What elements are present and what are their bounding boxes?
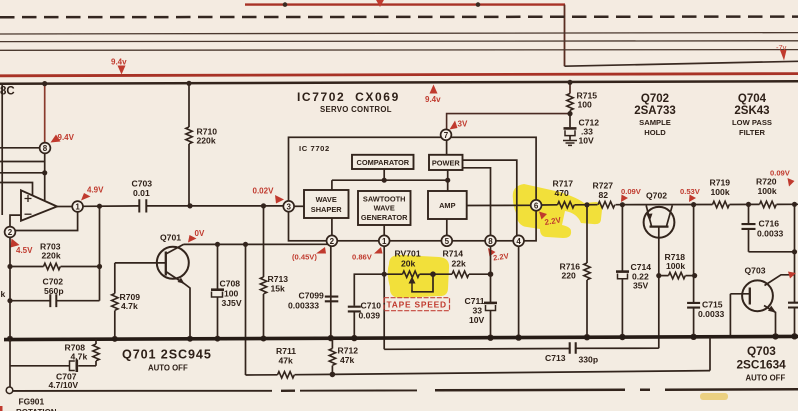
red 9.4V bus xyxy=(0,74,798,76)
svg-text:0.039: 0.039 xyxy=(359,311,381,321)
resistor R719 xyxy=(713,201,730,207)
node at (794.5,251.8) xyxy=(792,249,797,254)
thin bus line 3 xyxy=(0,49,798,52)
svg-text:C710: C710 xyxy=(361,301,382,311)
svg-text:10V: 10V xyxy=(469,315,485,325)
svg-text:2SK43: 2SK43 xyxy=(734,105,769,117)
wire pin 3 to WAVE SHAPER xyxy=(294,205,304,207)
wire inverting input from pin 2 xyxy=(10,215,21,227)
svg-text:IC7702 CX069: IC7702 CX069 xyxy=(297,90,400,104)
svg-text:220k: 220k xyxy=(197,136,216,146)
transistor Q703 xyxy=(742,280,773,311)
capacitor C713 on sub line xyxy=(384,348,569,351)
svg-text:0.53V: 0.53V xyxy=(680,187,701,196)
svg-text:22k: 22k xyxy=(452,259,467,269)
top power rail (red) xyxy=(245,3,565,5)
resistor R716 vertical xyxy=(586,205,588,263)
wire feedback pin1 to pin2 xyxy=(16,212,78,231)
capacitor C711 electrolytic xyxy=(484,302,497,305)
svg-text:Q703: Q703 xyxy=(747,344,776,358)
wire column x245.5 down through bus xyxy=(245,244,247,375)
dark 9.4V bus xyxy=(0,81,798,84)
node at (570,113.6) xyxy=(567,111,572,116)
svg-text:35V: 35V xyxy=(633,281,649,291)
wire stub y172 xyxy=(0,172,45,174)
wire left edge vertical xyxy=(1,85,3,216)
svg-text:R713: R713 xyxy=(268,274,289,284)
pin 5 of IC7702 xyxy=(441,235,452,246)
node C708 on ground bus xyxy=(215,336,221,342)
svg-text:100k: 100k xyxy=(711,187,730,197)
node at (44.7,172.8) xyxy=(42,170,47,175)
svg-text:AUTO OFF: AUTO OFF xyxy=(746,374,786,383)
wire pin2 column down xyxy=(9,238,11,339)
svg-text:100k: 100k xyxy=(666,261,685,271)
node right edge on ground bus xyxy=(791,333,797,339)
node at (587,204.8) xyxy=(584,202,589,207)
op-amp minus sign xyxy=(25,213,32,215)
svg-text:100k: 100k xyxy=(758,186,777,196)
block COMPARATOR xyxy=(352,155,414,169)
block AMP xyxy=(428,191,467,219)
svg-text:3: 3 xyxy=(286,202,291,211)
svg-text:SERVO CONTROL: SERVO CONTROL xyxy=(320,105,392,114)
svg-text:0.86V: 0.86V xyxy=(352,253,373,262)
svg-text:FILTER: FILTER xyxy=(739,128,766,137)
wire vertical -7V feed xyxy=(564,5,566,67)
arrow 9.4V to pin 8 xyxy=(51,135,61,143)
node at (332.4,374.4) xyxy=(330,372,336,378)
resistor R711 horizontal on lower line xyxy=(246,374,278,376)
block WAVE SHAPER xyxy=(304,190,349,218)
svg-text:0.0033: 0.0033 xyxy=(757,229,784,239)
arrow to pin 1 xyxy=(374,247,383,254)
arrow 9.4V mid (pointing up) xyxy=(430,85,438,94)
resistor R713 vertical xyxy=(263,206,265,277)
wire pin 1 column down through bus xyxy=(383,246,385,349)
highlighter mark over pin 6 area xyxy=(513,184,602,238)
wire pin8 feed from bus (red) xyxy=(44,84,46,143)
node at (245.5,244.3) xyxy=(243,242,248,247)
node at (658.8,275.6) xyxy=(656,273,661,278)
wire R717 to R727 xyxy=(575,204,598,206)
thin bus line 1 xyxy=(0,33,798,34)
node R715 on dark bus xyxy=(567,80,572,85)
svg-text:100: 100 xyxy=(578,100,593,110)
svg-text:GENERATOR: GENERATOR xyxy=(361,213,408,222)
arrow 4.9V to pin 1 xyxy=(81,193,91,201)
red tick bottom left xyxy=(0,406,3,411)
node at (99.5,266.5) xyxy=(97,264,102,269)
resistor R717 xyxy=(558,202,575,208)
svg-text:FG901: FG901 xyxy=(19,397,45,407)
arrow 0V xyxy=(188,235,197,243)
capacitor at right edge (partial) xyxy=(788,303,798,308)
node R716 on ground bus xyxy=(584,334,590,340)
transistor Q701 xyxy=(157,247,189,279)
wire bend up at x710 xyxy=(709,337,711,370)
-7V line xyxy=(565,61,798,66)
highlighter smudge bottom right xyxy=(700,393,728,400)
wire WAVE SHAPER top xyxy=(331,180,333,190)
svg-text:8: 8 xyxy=(43,144,48,153)
arrow -7V xyxy=(780,50,787,61)
svg-text:33: 33 xyxy=(473,306,483,316)
wire pin 8 column down xyxy=(490,246,492,302)
svg-text:470: 470 xyxy=(555,188,570,198)
svg-text:4.7/10V: 4.7/10V xyxy=(49,380,79,390)
svg-text:9.4v: 9.4v xyxy=(425,95,441,104)
svg-text:20k: 20k xyxy=(401,259,416,269)
svg-text:R714: R714 xyxy=(443,249,464,259)
svg-text:2: 2 xyxy=(8,228,13,237)
svg-text:R712: R712 xyxy=(338,346,359,356)
wire RV701 left arm and C710 arm xyxy=(354,274,384,306)
resistor R710 vertical with wires xyxy=(188,83,190,127)
wire Q701 emitter with arrow xyxy=(166,272,190,339)
svg-text:k: k xyxy=(1,289,6,299)
connector circle FG901 xyxy=(6,387,13,394)
ground bus (thick) xyxy=(4,336,798,339)
wire Q702 base column below bus to C713 line xyxy=(658,276,660,349)
svg-text:82: 82 xyxy=(599,190,609,200)
node at (693.6,204.6) xyxy=(691,202,696,207)
node C714 on ground bus xyxy=(619,334,625,340)
wire Q703 base column to ground bus xyxy=(729,294,731,337)
svg-text:0.09V: 0.09V xyxy=(770,169,791,178)
capacitor C712 electrolytic xyxy=(569,114,571,128)
wire R711 branch vertical xyxy=(245,374,247,376)
wire pin8 down to op-amp xyxy=(44,154,46,202)
node at (217.5,244.3) xyxy=(215,242,220,247)
node C710 on ground bus xyxy=(351,335,357,341)
svg-text:LOW PASS: LOW PASS xyxy=(732,118,772,127)
svg-text:C703: C703 xyxy=(132,179,153,189)
svg-text:9.4v: 9.4v xyxy=(111,58,127,67)
wire wiper loop xyxy=(412,274,433,292)
pin 8 of op-amp xyxy=(40,143,51,154)
svg-text:C7099: C7099 xyxy=(299,291,325,301)
svg-text:0.0033: 0.0033 xyxy=(698,309,725,319)
wire Q702 base down xyxy=(658,227,660,276)
pin 6 of IC7702 xyxy=(531,200,542,211)
wire WAVE SHAPER to pin 2 xyxy=(331,218,333,235)
wire stub y182 with bend to op-amp xyxy=(0,183,33,197)
wire pin 6 to R717 xyxy=(542,204,558,206)
node at (694.6,275.6) xyxy=(692,273,697,278)
svg-text:Q704: Q704 xyxy=(738,93,767,105)
svg-text:IC 7702: IC 7702 xyxy=(299,144,330,153)
wire stub to pin 8 xyxy=(0,147,40,149)
svg-text:C714: C714 xyxy=(631,262,652,272)
bottom boundary line segments xyxy=(13,390,272,392)
arrow 2.2V to pin 6 xyxy=(539,212,547,220)
wire R720 to right edge xyxy=(777,203,798,205)
svg-text:(0.45V): (0.45V) xyxy=(292,253,317,262)
node at (10,266.5) xyxy=(7,264,12,269)
svg-text:4: 4 xyxy=(516,237,521,246)
svg-text:15k: 15k xyxy=(271,284,286,294)
svg-text:0.00333: 0.00333 xyxy=(288,301,319,311)
svg-text:4.9V: 4.9V xyxy=(87,186,104,195)
svg-text:POWER: POWER xyxy=(432,159,461,168)
svg-text:2SC1634: 2SC1634 xyxy=(737,358,787,372)
arrow 0.09V xyxy=(621,195,628,203)
capacitor C716 xyxy=(748,204,750,223)
arrow 9.4V top xyxy=(118,66,126,75)
svg-text:330p: 330p xyxy=(579,355,599,365)
arrow 0.02V to pin 3 xyxy=(275,195,284,204)
stamp TAPE SPEED xyxy=(384,298,450,311)
resistor R720 xyxy=(760,201,777,207)
svg-text:C708: C708 xyxy=(220,279,241,289)
svg-text:10V: 10V xyxy=(579,136,595,146)
pin 3 of IC7702 xyxy=(283,201,294,212)
wire Q701 collector to IC pin 2 xyxy=(184,243,331,245)
svg-text:C716: C716 xyxy=(759,219,780,229)
wire pin 2 column down xyxy=(330,246,332,338)
svg-text:C711: C711 xyxy=(465,296,485,306)
svg-text:WAVE: WAVE xyxy=(374,204,395,213)
svg-text:SAWTOOTH: SAWTOOTH xyxy=(363,195,406,204)
Q703 emitter diagonal with arrow xyxy=(764,306,776,337)
red mark at Q703 collector xyxy=(788,272,796,279)
svg-text:4.7k: 4.7k xyxy=(121,301,138,311)
svg-text:Q702: Q702 xyxy=(646,191,667,201)
svg-text:Q701 2SC945: Q701 2SC945 xyxy=(122,348,212,362)
node at (99.5,206.2) xyxy=(97,204,102,209)
resistor R727 xyxy=(598,202,615,208)
thin bus line 2 xyxy=(0,40,798,43)
svg-text:5: 5 xyxy=(445,237,450,246)
wire AMP to pin 6 xyxy=(467,204,531,206)
svg-text:AMP: AMP xyxy=(439,201,455,210)
wire internal junction bus xyxy=(332,179,448,181)
op-amp U701 triangle xyxy=(21,190,57,220)
svg-text:4.7k: 4.7k xyxy=(71,352,88,362)
capacitor C708 electrolytic xyxy=(217,244,219,288)
node at (10,300.7) xyxy=(7,298,12,303)
capacitor C707 electrolytic horizontal xyxy=(78,365,96,367)
svg-text:9.4V: 9.4V xyxy=(58,133,75,142)
svg-text:WAVE: WAVE xyxy=(316,195,337,204)
node at (384.2,274.2) xyxy=(382,272,387,277)
arrow to pin 2 xyxy=(316,247,326,254)
svg-text:560p: 560p xyxy=(44,286,64,296)
block SAWTOOTH WAVE GENERATOR xyxy=(358,191,411,225)
svg-text:7: 7 xyxy=(444,131,449,140)
capacitor C7099 xyxy=(325,297,339,302)
wire SAWTOOTH to pin 1 xyxy=(383,225,385,235)
svg-text:Q702: Q702 xyxy=(641,93,669,105)
svg-text:COMPARATOR: COMPARATOR xyxy=(357,158,410,167)
node at (190,205.9) xyxy=(187,203,192,208)
pin 4 of IC7702 xyxy=(513,235,524,246)
node Q703 emitter on ground bus xyxy=(772,333,778,339)
wire C716 loop bottom xyxy=(749,251,795,253)
svg-text:RV701: RV701 xyxy=(395,249,421,259)
wire R727 to Q702 region xyxy=(616,204,713,206)
svg-text:220k: 220k xyxy=(42,251,61,261)
wire pin 4 column down xyxy=(518,246,520,337)
node at (263.5,205.9) xyxy=(261,203,266,208)
svg-text:47k: 47k xyxy=(340,355,355,365)
wire pin 7 to POWER xyxy=(446,140,448,155)
svg-text:0.02V: 0.02V xyxy=(253,187,275,196)
svg-text:AUTO OFF: AUTO OFF xyxy=(148,364,188,373)
wire lower auto-off line to right xyxy=(332,371,710,375)
Q703 collector diagonal and wire to right column xyxy=(765,275,795,286)
svg-text:TAPE SPEED: TAPE SPEED xyxy=(386,300,446,310)
wire feedback column x99.5 xyxy=(99,206,101,301)
resistor R703 horizontal xyxy=(10,266,44,268)
capacitor C702 xyxy=(10,300,100,302)
arrow 0.53V xyxy=(689,195,696,203)
wire op-amp output to pin 1 xyxy=(57,206,72,208)
node on dark bus at x189 xyxy=(186,81,191,86)
resistor R715 vertical with wires xyxy=(569,82,571,93)
wire C703 to pin 3 xyxy=(146,205,283,207)
arrow 3V to pin 7 xyxy=(450,121,458,130)
svg-text:3V: 3V xyxy=(458,120,468,129)
svg-text:6: 6 xyxy=(534,201,539,210)
svg-text:R717: R717 xyxy=(553,179,574,189)
node pin2 column on ground bus xyxy=(328,335,334,341)
svg-text:47k: 47k xyxy=(279,356,294,366)
capacitor C714 electrolytic xyxy=(621,205,623,271)
node pin4 on ground bus xyxy=(515,334,521,340)
svg-text:4.5V: 4.5V xyxy=(16,246,33,255)
node at (10,338.6) on ground bus xyxy=(7,336,13,342)
node C715 on ground bus xyxy=(690,334,696,340)
resistor R709 vertical xyxy=(114,263,116,294)
node on dark bus at x44.7 xyxy=(42,81,47,86)
svg-text:R719: R719 xyxy=(710,178,731,188)
node at (748.5,204.4) xyxy=(746,202,751,207)
node on top rail xyxy=(283,2,288,7)
RV701 wiper arrow xyxy=(411,282,413,291)
svg-text:Q701: Q701 xyxy=(160,233,181,243)
node R713 on ground bus xyxy=(261,336,267,342)
ground symbol below C712 xyxy=(563,141,577,146)
svg-text:220: 220 xyxy=(562,271,577,281)
arrow to pin 8 xyxy=(488,248,496,257)
capacitor C710 xyxy=(348,307,361,312)
node Q701 emitter on ground bus xyxy=(187,336,193,342)
wire stub y161 xyxy=(0,161,45,163)
wire R719 to R720 xyxy=(730,203,760,205)
svg-text:2SA733: 2SA733 xyxy=(634,105,676,117)
pin 2 of op-amp xyxy=(5,227,16,238)
node on top rail xyxy=(476,2,481,7)
Q702 emitter diagonal with arrow xyxy=(646,206,651,227)
wire Q703 base xyxy=(730,293,749,295)
op-amp plus sign xyxy=(25,195,32,202)
node R709 on ground bus xyxy=(112,336,118,342)
pin 8 of IC7702 xyxy=(485,235,496,246)
svg-text:8: 8 xyxy=(488,237,493,246)
voltage arrow on top rail xyxy=(376,0,385,7)
wire C715 column xyxy=(693,205,695,302)
svg-text:HOLD: HOLD xyxy=(644,128,666,137)
svg-text:100: 100 xyxy=(224,289,239,299)
node at (447.7,180.2) xyxy=(445,178,450,183)
potentiometer RV701 xyxy=(384,273,402,275)
svg-text:SAMPLE: SAMPLE xyxy=(639,118,671,127)
svg-text:1: 1 xyxy=(75,203,80,212)
node at (490.5,274.2) xyxy=(488,271,494,277)
svg-text:Q703: Q703 xyxy=(745,266,766,276)
node at (433,274.2) xyxy=(430,271,436,277)
svg-text:C715: C715 xyxy=(702,300,723,310)
svg-text:C702: C702 xyxy=(43,277,64,287)
pin 1 of op-amp xyxy=(72,201,83,212)
resistor R712 vertical xyxy=(331,339,333,349)
svg-text:3J5V: 3J5V xyxy=(222,298,242,308)
node at (622.4,204.7) xyxy=(620,202,625,207)
block POWER xyxy=(429,155,463,170)
wire POWER to pin 4 xyxy=(463,160,517,235)
pin 1 of IC7702 xyxy=(379,235,390,246)
wire AMP to pin 5 xyxy=(446,219,448,235)
wire POWER bottom to AMP top xyxy=(447,170,449,191)
arrow 4.5V to pin 2 xyxy=(11,239,20,248)
arrow 0.09V to node xyxy=(788,178,795,187)
capacitor C703 xyxy=(139,199,146,212)
wire right edge column xyxy=(794,204,796,302)
wire R715 to pin 7 feed xyxy=(447,114,570,130)
svg-text:0V: 0V xyxy=(195,229,205,238)
svg-text:SHAPER: SHAPER xyxy=(311,205,342,214)
pin 2 of IC7702 xyxy=(327,235,338,246)
Q702 collector diagonal xyxy=(667,206,673,227)
wire left column below bus xyxy=(9,340,11,387)
pin 7 of IC7702 xyxy=(441,129,452,140)
resistor R708 vertical xyxy=(95,339,97,344)
highlighter mark over RV701 xyxy=(388,255,449,298)
svg-text:C713: C713 xyxy=(545,353,566,363)
dashed bus line xyxy=(0,15,798,18)
capacitor C715 xyxy=(687,303,700,308)
op-amp U1 IC7702 outline box xyxy=(289,137,537,241)
svg-text:0.01: 0.01 xyxy=(133,188,150,198)
resistor R714 xyxy=(433,273,452,275)
svg-text:R727: R727 xyxy=(593,181,614,191)
wire COMPARATOR bottom xyxy=(383,169,385,180)
node at (384.2,180.2) xyxy=(382,178,387,183)
svg-text:R720: R720 xyxy=(756,177,777,187)
svg-text:2: 2 xyxy=(330,237,335,246)
resistor R718 xyxy=(659,275,669,277)
wire Q701 collector up-right xyxy=(166,244,184,254)
wire pin1 output to C703 xyxy=(83,205,139,207)
node C711 on ground bus xyxy=(487,335,493,341)
svg-text:R711: R711 xyxy=(276,346,296,356)
wire POWER to pin 8 xyxy=(463,168,491,236)
node at (794.5,204.3) xyxy=(792,202,797,207)
wire Q701 base xyxy=(115,262,166,264)
transistor Q702 xyxy=(644,207,675,238)
svg-text:1: 1 xyxy=(382,237,387,246)
svg-text:0.09V: 0.09V xyxy=(621,187,642,196)
